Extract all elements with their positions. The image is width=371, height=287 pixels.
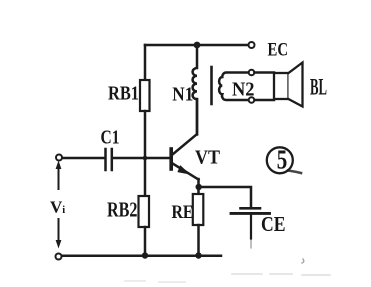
smudge bottom right — [302, 259, 304, 263]
svg-text:5: 5 — [277, 145, 288, 175]
terminal N2 bottom — [249, 97, 255, 103]
transformer core — [210, 67, 213, 104]
capacitor C1 — [106, 149, 112, 170]
node RE bottom — [195, 252, 201, 258]
capacitor CE top plate — [241, 207, 261, 210]
svg-text:CE: CE — [261, 212, 286, 236]
figure number 5 circle — [267, 147, 293, 173]
wire emitter down — [197, 179, 200, 194]
winding N2 — [219, 73, 249, 101]
svg-text:RE: RE — [172, 203, 194, 223]
wire bottom rail — [62, 255, 221, 258]
wire collector to N1 — [196, 99, 199, 135]
smudge below figure number — [288, 171, 301, 174]
terminal EC — [249, 42, 255, 48]
svg-text:BL: BL — [310, 75, 327, 100]
svg-text:RB2: RB2 — [107, 197, 138, 221]
wire C1 to base — [113, 157, 170, 160]
speaker BL box — [274, 73, 289, 99]
svg-text:VT: VT — [195, 147, 221, 169]
wire input top — [63, 157, 105, 160]
node emitter — [196, 184, 202, 190]
node base junction — [143, 156, 148, 161]
wire CE fading tail — [250, 239, 252, 249]
winding N1 — [193, 45, 197, 134]
svg-text:EC: EC — [268, 40, 289, 61]
resistor RB1 — [140, 80, 150, 111]
transistor VT emitter arrow — [177, 165, 190, 175]
smudge scan noise row2 — [125, 281, 185, 282]
wire RB2 bottom lead — [144, 227, 147, 256]
transistor VT base bar — [169, 149, 173, 169]
terminal input top — [56, 155, 62, 161]
svg-text:N1: N1 — [172, 84, 193, 106]
wire RE bottom lead — [197, 225, 200, 256]
wire RB1 top lead — [144, 45, 147, 80]
transistor VT collector — [173, 135, 197, 155]
speaker BL cone — [289, 63, 303, 107]
wire bias branch to RB2 — [144, 160, 147, 196]
node top junction — [194, 42, 201, 49]
capacitor CE bottom plate — [231, 212, 270, 215]
wire emitter to CE — [199, 187, 251, 207]
node RB2 bottom — [142, 252, 148, 258]
wire N2 top to speaker — [255, 71, 275, 74]
svg-text:C1: C1 — [101, 127, 120, 149]
smudge scan noise row — [232, 274, 330, 275]
resistor RE — [193, 194, 204, 225]
source arrow down Vi — [58, 219, 60, 240]
source arrow up Vi — [58, 168, 60, 189]
wire RB1 bottom lead — [144, 111, 147, 155]
transistor VT emitter — [173, 164, 199, 180]
wire CE bottom lead — [250, 215, 252, 239]
svg-text:Vi: Vi — [50, 197, 65, 216]
resistor RB2 — [139, 196, 150, 227]
terminal input bottom — [56, 254, 62, 260]
svg-text:RB1: RB1 — [108, 83, 139, 105]
terminal N2 top — [249, 70, 255, 76]
wire N2 bottom to speaker — [255, 99, 275, 102]
wire top rail — [145, 44, 248, 47]
